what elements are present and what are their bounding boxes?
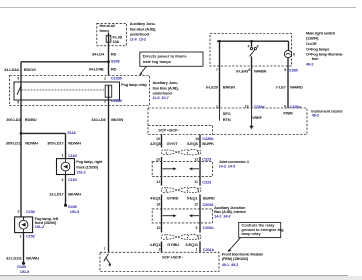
svg-text:BU/PK: BU/PK bbox=[202, 141, 214, 146]
svg-text:RD/WH: RD/WH bbox=[25, 140, 38, 145]
svg-text:1: 1 bbox=[195, 248, 197, 252]
svg-text:(11654): (11654) bbox=[306, 36, 319, 41]
svg-text:1: 1 bbox=[62, 154, 64, 158]
svg-text:C2034: C2034 bbox=[203, 202, 215, 207]
svg-text:C285: C285 bbox=[289, 67, 299, 72]
svg-text:12: 12 bbox=[194, 203, 198, 207]
svg-text:151-2: 151-2 bbox=[35, 224, 45, 229]
svg-text:SCP +/SCP -: SCP +/SCP - bbox=[162, 254, 184, 259]
svg-text:C203c: C203c bbox=[203, 225, 215, 230]
svg-text:11-6 13-2: 11-6 13-2 bbox=[130, 36, 147, 41]
svg-text:11: 11 bbox=[194, 180, 198, 184]
svg-text:2: 2 bbox=[104, 99, 106, 103]
svg-text:C201b: C201b bbox=[203, 247, 215, 252]
svg-text:5-EQ1: 5-EQ1 bbox=[187, 196, 199, 201]
svg-text:6-LE29: 6-LE29 bbox=[206, 84, 219, 89]
svg-text:4: 4 bbox=[248, 44, 250, 48]
svg-text:SCP +/SCP -: SCP +/SCP - bbox=[158, 127, 180, 132]
svg-text:15: 15 bbox=[156, 137, 160, 141]
svg-text:C226b: C226b bbox=[202, 136, 214, 141]
svg-text:RD: RD bbox=[111, 66, 117, 71]
svg-text:9-LE43: 9-LE43 bbox=[236, 68, 249, 73]
svg-text:SFO: SFO bbox=[223, 111, 231, 116]
svg-text:34-LD4B: 34-LD4B bbox=[89, 66, 104, 71]
svg-text:12: 12 bbox=[156, 180, 160, 184]
svg-text:C223: C223 bbox=[202, 157, 212, 162]
svg-text:O=Off: O=Off bbox=[306, 41, 317, 46]
svg-text:7-LE7: 7-LE7 bbox=[276, 84, 287, 89]
svg-text:S108: S108 bbox=[111, 59, 121, 64]
svg-text:BK/WH: BK/WH bbox=[26, 256, 39, 261]
svg-text:4-EQ1: 4-EQ1 bbox=[150, 196, 162, 201]
svg-text:13: 13 bbox=[245, 105, 249, 109]
svg-text:C162: C162 bbox=[68, 177, 78, 182]
svg-text:4-EQ8: 4-EQ8 bbox=[150, 141, 162, 146]
svg-text:8: 8 bbox=[284, 68, 286, 72]
svg-text:RD/WH: RD/WH bbox=[68, 140, 81, 145]
svg-text:7: 7 bbox=[103, 247, 105, 251]
svg-text:C1035: C1035 bbox=[111, 75, 123, 80]
svg-text:BK/GN: BK/GN bbox=[111, 117, 123, 122]
svg-text:5: 5 bbox=[17, 100, 19, 104]
svg-text:Fog lamp relay: Fog lamp relay bbox=[121, 82, 148, 87]
svg-text:C152: C152 bbox=[26, 209, 36, 214]
svg-text:BU/RD: BU/RD bbox=[203, 196, 215, 201]
svg-text:49-2: 49-2 bbox=[312, 113, 320, 118]
svg-text:4-EQ11: 4-EQ11 bbox=[150, 242, 163, 247]
svg-text:tion: tion bbox=[312, 56, 319, 61]
svg-text:6: 6 bbox=[257, 44, 259, 48]
svg-text:2: 2 bbox=[159, 248, 161, 252]
svg-text:300-LD2: 300-LD2 bbox=[6, 117, 21, 122]
svg-text:310-LD8: 310-LD8 bbox=[91, 117, 106, 122]
svg-text:O=Fog lamps: O=Fog lamps bbox=[306, 46, 330, 51]
svg-text:3: 3 bbox=[17, 77, 19, 81]
svg-text:15A: 15A bbox=[113, 39, 120, 44]
svg-text:13: 13 bbox=[156, 157, 160, 161]
svg-text:2: 2 bbox=[18, 210, 20, 214]
svg-text:PWM: PWM bbox=[283, 111, 293, 116]
svg-text:34-LD4A: 34-LD4A bbox=[4, 67, 19, 72]
svg-text:nate fog lamps: nate fog lamps bbox=[143, 59, 172, 64]
svg-text:BK/WH: BK/WH bbox=[68, 191, 81, 196]
svg-text:49-1 49-2: 49-1 49-2 bbox=[222, 262, 239, 267]
svg-text:151-5: 151-5 bbox=[70, 209, 80, 214]
svg-text:1: 1 bbox=[104, 76, 106, 80]
svg-text:(FEM) (15K602): (FEM) (15K602) bbox=[222, 256, 249, 261]
svg-text:151-2: 151-2 bbox=[76, 169, 86, 174]
svg-text:S118: S118 bbox=[67, 130, 76, 135]
svg-text:RD/BU: RD/BU bbox=[25, 117, 37, 122]
svg-text:lamp relay: lamp relay bbox=[241, 231, 261, 236]
svg-text:151-5: 151-5 bbox=[20, 269, 30, 274]
svg-text:C152: C152 bbox=[26, 234, 36, 239]
svg-text:305-LD17: 305-LD17 bbox=[47, 140, 64, 145]
svg-text:times: times bbox=[100, 28, 110, 33]
svg-text:RD/OG: RD/OG bbox=[24, 67, 36, 72]
svg-text:GY/BU: GY/BU bbox=[167, 242, 179, 247]
svg-text:11-6 10-7: 11-6 10-7 bbox=[153, 95, 170, 100]
svg-text:C162: C162 bbox=[68, 153, 78, 158]
svg-text:RD: RD bbox=[111, 51, 117, 56]
svg-text:6: 6 bbox=[293, 53, 295, 57]
svg-text:10: 10 bbox=[157, 226, 161, 230]
svg-text:5-EQ8: 5-EQ8 bbox=[187, 141, 199, 146]
svg-text:6: 6 bbox=[248, 68, 250, 72]
svg-text:WH/RD: WH/RD bbox=[290, 84, 303, 89]
svg-text:31-LD111: 31-LD111 bbox=[6, 256, 23, 261]
svg-text:34-LD4: 34-LD4 bbox=[92, 51, 105, 56]
svg-text:Main light switch: Main light switch bbox=[306, 30, 336, 35]
svg-text:14-2 14-3: 14-2 14-3 bbox=[219, 164, 236, 169]
svg-text:5-EQ11: 5-EQ11 bbox=[186, 242, 199, 247]
svg-text:9: 9 bbox=[196, 226, 198, 230]
svg-text:RTN: RTN bbox=[223, 117, 231, 122]
svg-text:9: 9 bbox=[284, 105, 286, 109]
svg-text:C226a: C226a bbox=[290, 104, 302, 109]
svg-text:C1035: C1035 bbox=[111, 98, 123, 103]
svg-text:VREF: VREF bbox=[252, 115, 263, 120]
svg-text:31-LD17: 31-LD17 bbox=[49, 191, 64, 196]
svg-text:WH/BK: WH/BK bbox=[254, 68, 267, 73]
svg-text:Directs power to illumi-: Directs power to illumi- bbox=[143, 54, 188, 59]
svg-text:GY/RD: GY/RD bbox=[167, 196, 179, 201]
svg-text:1: 1 bbox=[216, 105, 218, 109]
svg-text:1: 1 bbox=[20, 235, 22, 239]
svg-text:BN/GN: BN/GN bbox=[223, 84, 235, 89]
svg-text:305-LD11: 305-LD11 bbox=[6, 140, 23, 145]
svg-text:2: 2 bbox=[62, 178, 64, 182]
svg-text:GY/VT: GY/VT bbox=[167, 141, 179, 146]
svg-text:16: 16 bbox=[195, 137, 199, 141]
svg-text:7: 7 bbox=[216, 68, 218, 72]
svg-text:14-2 14-3: 14-2 14-3 bbox=[214, 213, 231, 218]
svg-text:C226a: C226a bbox=[254, 104, 266, 109]
svg-text:49-2: 49-2 bbox=[306, 62, 314, 67]
svg-text:16: 16 bbox=[156, 203, 160, 207]
svg-text:C223: C223 bbox=[202, 179, 212, 184]
svg-text:12: 12 bbox=[194, 157, 198, 161]
